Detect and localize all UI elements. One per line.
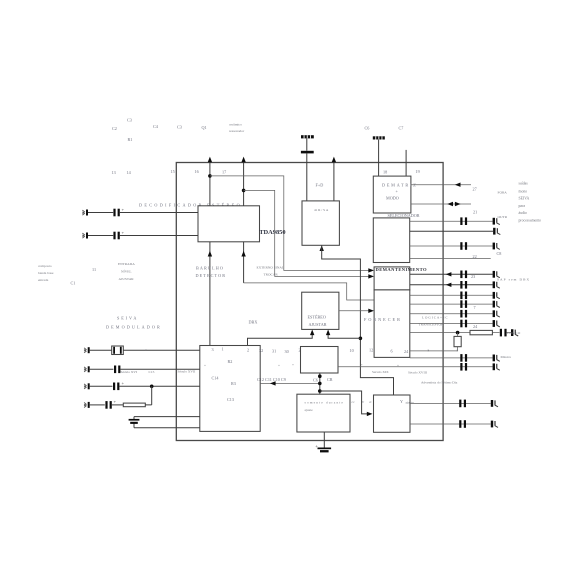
svg-text:C13: C13 [227, 397, 234, 402]
svg-text:TROCAR: TROCAR [264, 273, 279, 277]
svg-text:C12 C11 C10 C9: C12 C11 C10 C9 [257, 377, 286, 382]
svg-text:R2: R2 [228, 359, 233, 364]
svg-text:6: 6 [391, 348, 393, 353]
svg-text:saídas: saídas [519, 182, 529, 186]
svg-text:7: 7 [474, 305, 476, 310]
svg-text:3: 3 [212, 347, 214, 352]
svg-text:Século XIX: Século XIX [372, 370, 389, 374]
svg-text:AJUSTAR: AJUSTAR [119, 277, 135, 281]
svg-text:+: + [292, 363, 294, 367]
svg-text:C1: C1 [71, 281, 76, 286]
svg-text:11: 11 [92, 267, 96, 272]
svg-text:22: 22 [473, 254, 477, 259]
svg-text:Y: Y [400, 399, 403, 404]
svg-text:+: + [361, 363, 363, 367]
svg-text:SELECIONADOR: SELECIONADOR [388, 213, 420, 218]
svg-text:ENTRADA: ENTRADA [118, 262, 135, 266]
svg-text:MODO: MODO [386, 196, 399, 201]
svg-text:15: 15 [171, 169, 175, 174]
svg-text:processamento: processamento [519, 218, 542, 222]
svg-text:composto: composto [38, 264, 52, 268]
svg-text:C6: C6 [365, 126, 370, 131]
svg-text:16: 16 [195, 169, 199, 174]
svg-text:8: 8 [428, 349, 430, 353]
svg-text:C15: C15 [149, 370, 155, 374]
svg-text:+: + [145, 348, 147, 352]
svg-text:32: 32 [259, 348, 263, 353]
svg-text:Século XVII: Século XVII [178, 370, 197, 374]
svg-text:SAP sem DBX: SAP sem DBX [497, 278, 530, 282]
svg-text:cc: cc [352, 400, 356, 404]
svg-text:2: 2 [247, 347, 249, 352]
svg-text:FORA: FORA [498, 191, 508, 195]
svg-text:23: 23 [471, 274, 475, 279]
svg-text:ESTÉREO: ESTÉREO [308, 314, 326, 319]
svg-text:ressonador: ressonador [229, 129, 245, 133]
svg-text:C6: C6 [313, 378, 318, 383]
svg-text:30: 30 [285, 349, 289, 354]
svg-text:19: 19 [416, 169, 420, 174]
svg-text:banda base: banda base [38, 271, 54, 275]
svg-text:31: 31 [272, 349, 276, 354]
svg-text:FORNECER: FORNECER [364, 317, 402, 322]
svg-text:somente durante: somente durante [305, 401, 345, 405]
svg-text:C3: C3 [127, 118, 132, 123]
svg-text:áudio: áudio [519, 211, 528, 215]
svg-text:+: + [204, 364, 206, 368]
svg-text:TDA9850: TDA9850 [259, 229, 285, 236]
svg-text:C14: C14 [212, 376, 220, 381]
svg-text:SEIVA: SEIVA [519, 197, 530, 201]
svg-text:LOGICO: LOGICO [507, 331, 521, 335]
svg-text:CR: CR [327, 377, 333, 382]
svg-text:13: 13 [112, 170, 116, 175]
svg-text:NÍVEL: NÍVEL [121, 269, 132, 274]
svg-text:1: 1 [222, 347, 224, 352]
svg-text:5: 5 [457, 349, 459, 353]
svg-text:OUTR: OUTR [498, 215, 508, 219]
svg-text:R1: R1 [128, 137, 133, 142]
svg-text:17: 17 [222, 170, 226, 175]
svg-text:F+D: F+D [316, 183, 324, 188]
svg-text:Q1: Q1 [202, 125, 207, 130]
svg-text:BARULHO: BARULHO [196, 266, 224, 271]
svg-text:+: + [122, 207, 125, 212]
svg-text:DETECTOR: DETECTOR [196, 273, 227, 278]
svg-text:C2: C2 [112, 126, 117, 131]
svg-text:m R / S A: m R / S A [315, 208, 329, 212]
svg-text:+: + [122, 381, 125, 386]
svg-text:para: para [519, 204, 526, 208]
svg-text:SEIVA: SEIVA [117, 316, 138, 321]
svg-text:Música: Música [501, 355, 512, 359]
svg-text:Adventista do Sétimo Dia: Adventista do Sétimo Dia [421, 381, 458, 385]
svg-text:ajuste: ajuste [305, 408, 314, 412]
svg-text:27: 27 [473, 187, 477, 192]
svg-text:entrada: entrada [38, 278, 49, 282]
svg-text:C3: C3 [177, 125, 182, 130]
svg-text:EXTERNO SINAL: EXTERNO SINAL [257, 266, 285, 270]
svg-text:Século XVIII: Século XVIII [408, 371, 428, 375]
svg-text:cerâmico: cerâmico [229, 123, 242, 127]
svg-text:10: 10 [350, 348, 354, 353]
svg-text:+: + [315, 445, 318, 450]
svg-text:R3: R3 [231, 381, 236, 386]
svg-text:12: 12 [369, 348, 373, 353]
svg-text:+: + [122, 230, 125, 235]
svg-text:21: 21 [473, 209, 477, 214]
svg-text:mono: mono [519, 189, 528, 193]
svg-text:DBX: DBX [249, 320, 258, 325]
svg-text:+: + [114, 399, 117, 404]
svg-text:C7: C7 [399, 126, 404, 131]
svg-text:Século XVI: Século XVI [121, 370, 138, 374]
svg-text:AJUSTAR: AJUSTAR [309, 322, 327, 327]
svg-text:+: + [278, 364, 280, 368]
svg-text:DEMANTENIMENTO: DEMANTENIMENTO [376, 267, 427, 272]
svg-text:C8: C8 [497, 251, 502, 256]
svg-text:DEMODULADOR: DEMODULADOR [106, 325, 162, 330]
svg-text:L O G I C A + 2 C: L O G I C A + 2 C [422, 316, 448, 320]
svg-text:18: 18 [383, 170, 387, 175]
